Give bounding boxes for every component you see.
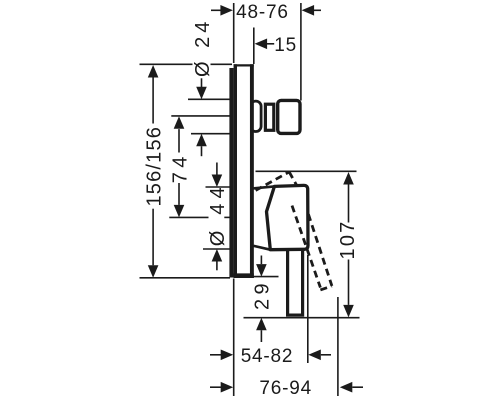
dashed lever right edge	[308, 214, 332, 286]
dashed handle right edge	[289, 172, 297, 186]
dimension 54-82	[210, 354, 331, 356]
wire extension handle center	[169, 216, 208, 218]
wire extension knob center	[171, 115, 232, 117]
dashed lever end cap	[320, 286, 332, 290]
knob bulge	[250, 101, 261, 131]
knob cylinder	[265, 104, 273, 130]
dimension 76-94	[210, 386, 363, 388]
wire extension knob cap bottom	[191, 133, 231, 135]
wall sleeve	[229, 68, 233, 278]
wire extension rosette top	[206, 186, 233, 188]
wire extension plate front top	[253, 28, 255, 65]
wire extension dashed lever tip	[337, 297, 339, 396]
wire extension lever bottom	[244, 317, 360, 319]
lever pipe	[288, 248, 303, 316]
wire extension plate bottom 29	[252, 276, 279, 278]
dimension 156/156	[152, 78, 154, 266]
svg-text:29: 29	[252, 279, 274, 310]
dashed handle top edge	[256, 172, 332, 290]
wire extension line wall bottom	[233, 279, 235, 397]
svg-text:Ø 24: Ø 24	[192, 18, 214, 77]
dimension 48-76	[211, 9, 321, 11]
dimension 15	[267, 43, 274, 45]
dimension Ø24	[201, 78, 203, 156]
wire extension knob cap top	[188, 98, 232, 100]
svg-text:54-82: 54-82	[241, 346, 294, 367]
svg-text:Ø 44: Ø 44	[207, 182, 229, 246]
svg-text:48-76: 48-76	[236, 2, 289, 23]
handle cone bottom	[254, 246, 271, 250]
dimension Ø44	[216, 163, 218, 271]
wire extension line wall top	[233, 3, 235, 63]
dashed lever left edge	[292, 206, 320, 288]
wire extension plate top	[140, 63, 233, 65]
wire extension rosette bottom	[203, 248, 231, 250]
dimension 107	[348, 185, 350, 305]
handle cone top	[254, 186, 275, 188]
svg-text:74: 74	[169, 152, 191, 183]
wire extension line knob front	[300, 3, 302, 101]
handle head	[267, 185, 309, 249]
svg-text:156/156: 156/156	[143, 126, 165, 207]
dimension 29	[260, 256, 262, 343]
dimension 74	[178, 129, 180, 205]
wall plate	[234, 64, 254, 278]
svg-text:107: 107	[337, 220, 359, 260]
svg-text:15: 15	[274, 35, 297, 56]
knob cap	[278, 100, 300, 133]
wire extension handle front	[307, 255, 309, 363]
wire extension swing top	[256, 170, 357, 172]
wire extension plate bottom left	[140, 277, 231, 279]
svg-text:76-94: 76-94	[259, 378, 312, 399]
